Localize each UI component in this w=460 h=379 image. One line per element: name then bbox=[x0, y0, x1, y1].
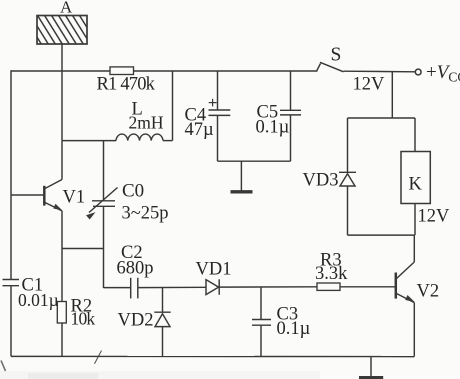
antenna A bbox=[22, 0, 99, 46]
capacitor C2 bbox=[104, 243, 154, 298]
wire bottom rail bbox=[11, 355, 414, 357]
wire V1 emitter bbox=[61, 211, 63, 302]
wire R3 to V2 base bbox=[340, 286, 396, 288]
svg-text:12V: 12V bbox=[353, 75, 386, 95]
svg-text:S: S bbox=[331, 45, 342, 66]
wire C2 to VD1 bbox=[138, 286, 206, 288]
svg-text:2mH: 2mH bbox=[129, 113, 164, 133]
svg-text:12V: 12V bbox=[418, 207, 451, 227]
capacitor C1 bbox=[3, 276, 59, 311]
ground (bottom) bbox=[359, 357, 383, 378]
svg-text:0.1µ: 0.1µ bbox=[256, 118, 290, 138]
diode VD2 bbox=[118, 288, 171, 357]
svg-text:VD1: VD1 bbox=[196, 260, 232, 280]
svg-text:A: A bbox=[60, 0, 73, 17]
svg-text:3~25p: 3~25p bbox=[122, 204, 169, 224]
svg-text:C0: C0 bbox=[122, 181, 144, 202]
svg-text:680p: 680p bbox=[117, 259, 154, 279]
stray scan mark bottom left corner bbox=[1, 361, 6, 372]
capacitor C0 (variable) bbox=[86, 141, 169, 288]
wire top rail middle bbox=[134, 70, 318, 72]
wire V1 base bbox=[11, 194, 44, 196]
svg-text:10k: 10k bbox=[71, 309, 96, 329]
ground (under C4/C5) bbox=[231, 161, 253, 192]
wire C4 C5 bottom bbox=[218, 160, 291, 162]
svg-text:VD3: VD3 bbox=[303, 171, 339, 191]
transistor V2 bbox=[396, 262, 439, 303]
wire left rail bbox=[10, 70, 12, 356]
wire relay branch top bbox=[348, 117, 416, 119]
switch S bbox=[317, 45, 386, 95]
svg-text:V2: V2 bbox=[417, 282, 440, 302]
transistor V1 bbox=[44, 141, 85, 211]
stray scan mark on bottom rail bbox=[95, 351, 102, 364]
wire emitter to C0 link bbox=[62, 248, 104, 250]
wire VD1 to R3 bbox=[219, 286, 317, 288]
resistor R1 bbox=[97, 67, 156, 95]
svg-text:V1: V1 bbox=[63, 188, 86, 208]
wire relay branch bottom bbox=[348, 234, 415, 236]
wire antenna lead bbox=[61, 44, 63, 141]
svg-text:47µ: 47µ bbox=[185, 120, 215, 140]
resistor R3 bbox=[315, 251, 348, 291]
capacitor C4 bbox=[185, 71, 231, 161]
inductor L bbox=[116, 100, 164, 141]
svg-text:3.3k: 3.3k bbox=[315, 264, 348, 284]
capacitor C5 bbox=[256, 71, 302, 161]
inductor L branch wires bbox=[62, 71, 173, 141]
wire V2 collector riser bbox=[413, 235, 415, 262]
node +Vcc terminal bbox=[415, 62, 460, 85]
diode VD1 bbox=[196, 260, 232, 295]
wire switch to Vcc terminal bbox=[344, 70, 416, 73]
svg-text:+VCC: +VCC bbox=[426, 62, 460, 85]
diode VD3 bbox=[303, 118, 357, 235]
faint scan smudge bottom edge bbox=[0, 371, 320, 379]
svg-text:R1 470k: R1 470k bbox=[97, 75, 156, 95]
resistor R2 bbox=[57, 297, 95, 357]
capacitor C3 bbox=[252, 287, 311, 356]
svg-text:0.1µ: 0.1µ bbox=[277, 319, 311, 339]
wire Vcc junction drop bbox=[391, 71, 393, 118]
wire top rail left bbox=[11, 70, 110, 72]
svg-text:0.01µ: 0.01µ bbox=[18, 290, 59, 310]
svg-text:VD2: VD2 bbox=[118, 311, 154, 331]
wire V2 emitter drop bbox=[413, 303, 415, 357]
svg-text:K: K bbox=[409, 175, 423, 195]
relay K bbox=[401, 118, 450, 235]
